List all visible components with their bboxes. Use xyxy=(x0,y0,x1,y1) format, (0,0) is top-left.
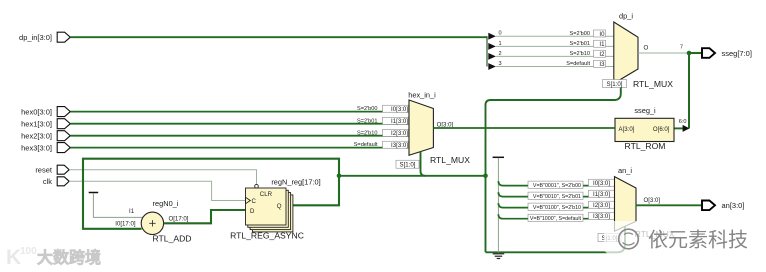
net label S=2'b00 hex0 xyxy=(357,106,378,112)
svg-text:I2: I2 xyxy=(599,51,605,58)
svg-text:hex_in_i: hex_in_i xyxy=(408,90,436,99)
svg-text:hex0[3:0]: hex0[3:0] xyxy=(21,107,52,116)
net label S=default hex3 xyxy=(354,142,378,148)
pin label S[1:0] dp_i xyxy=(603,80,627,89)
wire hex0 bus xyxy=(71,111,410,113)
net label S=2'b10 dp_i I2 xyxy=(569,51,590,57)
net label S=2'b10 hex2 xyxy=(357,130,378,136)
svg-text:S[1:0]: S[1:0] xyxy=(400,162,416,169)
op mux dp_i xyxy=(614,12,673,89)
svg-text:S=2'b10: S=2'b10 xyxy=(569,51,590,57)
svg-text:an_i: an_i xyxy=(618,166,632,175)
pin label I1 adder xyxy=(129,208,135,215)
svg-text:S=2'b10: S=2'b10 xyxy=(357,130,378,136)
watermark overlay bottom-right xyxy=(604,221,766,254)
junction select tap xyxy=(337,174,342,179)
svg-text:I1: I1 xyxy=(599,41,605,48)
net label S=2'b01 dp_i I1 xyxy=(569,41,590,47)
svg-text:reset: reset xyxy=(35,165,53,174)
svg-text:依元素科技: 依元素科技 xyxy=(648,229,748,252)
rom sseg_i xyxy=(615,106,674,151)
input port reset xyxy=(35,165,69,174)
svg-text:6:0: 6:0 xyxy=(679,119,687,125)
net label S=2'b01 hex1 xyxy=(357,118,378,124)
svg-text:hex2[3:0]: hex2[3:0] xyxy=(21,132,52,141)
op mux hex_in_i xyxy=(408,90,470,165)
svg-text:I2[3:0]: I2[3:0] xyxy=(593,202,610,209)
svg-text:1: 1 xyxy=(499,41,502,47)
wire an_i output O[3:0] xyxy=(636,197,702,205)
svg-text:C: C xyxy=(252,198,257,205)
svg-text:I3: I3 xyxy=(599,61,605,68)
wire constant to adder I1 xyxy=(93,193,143,217)
bus tap arrow bit0 xyxy=(488,31,614,40)
merge arrow rom output xyxy=(674,125,690,132)
svg-text:clk: clk xyxy=(43,177,52,186)
svg-text:S[1:0]: S[1:0] xyxy=(607,81,623,88)
watermark text bottom-left xyxy=(37,248,101,267)
pin label I1 dp_i xyxy=(594,40,606,48)
input port clk xyxy=(43,177,69,186)
input port dp_in[3:0] xyxy=(19,32,70,42)
svg-text:O: O xyxy=(644,45,649,52)
junction sseg merge xyxy=(687,51,692,56)
svg-text:RTL_MUX: RTL_MUX xyxy=(430,155,470,165)
wire hex3 bus xyxy=(71,147,410,149)
output port sseg[7:0] xyxy=(702,48,752,58)
svg-text:I1: I1 xyxy=(129,208,135,215)
svg-text:2: 2 xyxy=(499,51,502,57)
pin label I2 dp_i xyxy=(594,50,606,58)
svg-text:S=2'b01: S=2'b01 xyxy=(357,118,378,124)
svg-text:S=2'b00: S=2'b00 xyxy=(357,106,378,112)
pin label I0[3:0] an_i xyxy=(589,179,615,187)
wire constant branch an_i I0 xyxy=(498,181,614,186)
pin label I3 dp_i xyxy=(594,60,606,68)
pin label I0[3:0] hex_in_i xyxy=(383,105,409,113)
svg-text:hex3[3:0]: hex3[3:0] xyxy=(21,143,52,152)
register regN_reg[17:0] RTL_REG_ASYNC xyxy=(230,177,321,240)
svg-text:regN0_i: regN0_i xyxy=(153,199,179,208)
svg-text:I0[3:0]: I0[3:0] xyxy=(593,180,610,187)
svg-text:V=B"1000", S=default: V=B"1000", S=default xyxy=(530,216,582,222)
svg-text:O[3:0]: O[3:0] xyxy=(644,197,661,204)
net label S=2'b00 dp_i I0 xyxy=(569,31,590,37)
svg-text:dp_i: dp_i xyxy=(619,12,633,21)
svg-text:O[17:0]: O[17:0] xyxy=(169,215,189,222)
svg-text:dp_in[3:0]: dp_in[3:0] xyxy=(19,33,52,42)
pin label I2[3:0] an_i xyxy=(589,201,615,209)
input port hex1[3:0] xyxy=(21,119,70,129)
wire constant rail xyxy=(497,158,499,253)
svg-text:100: 100 xyxy=(20,246,37,257)
wire constant branch an_i I2 xyxy=(498,203,614,208)
svg-text:I0: I0 xyxy=(599,31,605,38)
svg-text:O[6:0]: O[6:0] xyxy=(653,126,670,133)
wire select horizontal xyxy=(339,175,486,177)
net label 6:0 xyxy=(679,119,687,125)
input port hex3[3:0] xyxy=(21,143,70,153)
pin label I3[3:0] an_i xyxy=(589,212,615,220)
svg-text:大数跨境: 大数跨境 xyxy=(37,248,101,267)
wire select to an_i xyxy=(486,227,626,253)
svg-text:S=default: S=default xyxy=(354,142,378,148)
svg-text:regN_reg[17:0]: regN_reg[17:0] xyxy=(271,177,320,186)
junction select cross xyxy=(483,174,488,179)
svg-text:S=2'b00: S=2'b00 xyxy=(569,31,590,37)
net label V=B"0010" an_i I1 xyxy=(528,192,583,200)
net label V=B"0001" an_i I0 xyxy=(528,181,583,189)
output port an[3:0] xyxy=(702,201,744,211)
svg-text:I0[3:0]: I0[3:0] xyxy=(391,106,408,113)
svg-text:0: 0 xyxy=(499,31,502,37)
constant tie T for an_i rail xyxy=(493,156,504,158)
input port hex0[3:0] xyxy=(21,107,70,117)
wire constant branch an_i I3 xyxy=(498,214,614,219)
svg-text:Q: Q xyxy=(277,203,282,210)
svg-text:RTL_REG_ASYNC: RTL_REG_ASYNC xyxy=(230,231,304,241)
op mux an_i xyxy=(615,166,675,239)
svg-text:I2[3:0]: I2[3:0] xyxy=(391,130,408,137)
wire clk net xyxy=(69,181,245,200)
pin label I2[3:0] hex_in_i xyxy=(383,129,409,137)
svg-text:S=default: S=default xyxy=(566,61,590,67)
bus tap arrow bit3 xyxy=(488,61,614,70)
watermark logo bottom-left xyxy=(6,246,37,269)
wire hex2 bus xyxy=(71,135,410,137)
op adder regN0_i xyxy=(141,199,191,243)
bus tap arrow bit1 xyxy=(488,41,614,50)
wire dp_in bus xyxy=(71,36,488,66)
svg-text:I1[3:0]: I1[3:0] xyxy=(391,118,408,125)
constant tie T for adder I1 xyxy=(89,192,99,194)
svg-text:I0[17:0]: I0[17:0] xyxy=(115,221,136,228)
svg-text:I3[3:0]: I3[3:0] xyxy=(593,213,610,220)
svg-text:an[3:0]: an[3:0] xyxy=(722,201,745,210)
svg-text:A[3:0]: A[3:0] xyxy=(619,126,635,133)
pin label I0[17:0] adder xyxy=(115,221,136,228)
input port hex2[3:0] xyxy=(21,131,70,141)
wire hex_in_i select stub xyxy=(421,152,426,176)
svg-text:S=2'b01: S=2'b01 xyxy=(569,41,590,47)
svg-text:V=B"0010", S=2'b01: V=B"0010", S=2'b01 xyxy=(533,194,581,200)
svg-text:I3[3:0]: I3[3:0] xyxy=(391,142,408,149)
svg-text:K: K xyxy=(6,246,21,269)
pin label I0 dp_i xyxy=(594,30,606,38)
svg-text:sseg[7:0]: sseg[7:0] xyxy=(722,49,752,58)
svg-text:sseg_i: sseg_i xyxy=(634,106,656,115)
pin label S[1:0] an_i xyxy=(598,234,621,243)
svg-text:V=B"0001", S=2'b00: V=B"0001", S=2'b00 xyxy=(533,183,581,189)
svg-text:V=B"0100", S=2'b10: V=B"0100", S=2'b10 xyxy=(533,205,581,211)
svg-text:D: D xyxy=(250,208,255,215)
wire dp_i output O xyxy=(638,45,689,54)
svg-text:7: 7 xyxy=(680,45,683,51)
svg-text:hex1[3:0]: hex1[3:0] xyxy=(21,120,52,129)
wire sseg bus to port xyxy=(689,52,702,54)
net label V=B"1000" an_i I3 xyxy=(528,214,583,222)
pin label I3[3:0] hex_in_i xyxy=(383,141,409,149)
net label 7 xyxy=(680,45,683,51)
wire reset net xyxy=(69,170,256,185)
bus tap arrow bit2 xyxy=(488,51,614,60)
wire hex_in_i output O[3:0] xyxy=(433,122,615,129)
wire feedback bus Q to adder I0 xyxy=(83,159,339,229)
ground xyxy=(493,254,505,259)
net label S=default dp_i I3 xyxy=(566,61,590,67)
svg-text:RTL_MUX: RTL_MUX xyxy=(633,79,673,89)
svg-text:RTL_ADD: RTL_ADD xyxy=(152,233,191,243)
svg-text:CLR: CLR xyxy=(260,191,273,198)
wire constant branch an_i I1 xyxy=(498,192,614,197)
wire sseg vertical 6:0 xyxy=(688,53,690,128)
pin label I1[3:0] an_i xyxy=(589,190,615,198)
wire select to dp_i xyxy=(486,80,621,106)
svg-text:I1[3:0]: I1[3:0] xyxy=(593,191,610,198)
wire adder output O[17:0] xyxy=(164,210,246,223)
pin label S[1:0] hex_in_i xyxy=(396,160,419,168)
wire select vertical xyxy=(485,104,487,252)
net label V=B"0100" an_i I2 xyxy=(528,203,583,211)
svg-text:RTL_ROM: RTL_ROM xyxy=(625,141,666,151)
pin label I1[3:0] hex_in_i xyxy=(383,117,409,125)
wire hex1 bus xyxy=(71,123,410,125)
